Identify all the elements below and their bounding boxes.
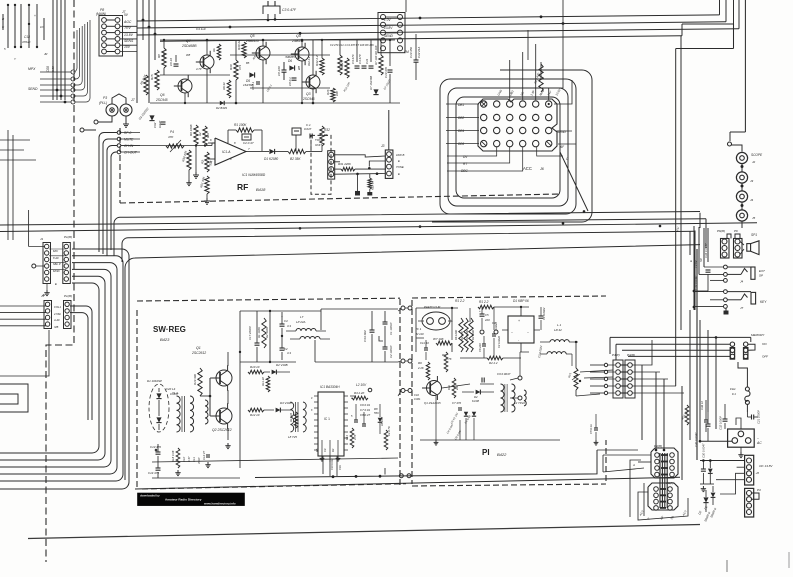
svg-text:Q5: Q5 — [250, 34, 255, 38]
svg-text:D3 V19B: D3 V19B — [280, 401, 292, 405]
wire bundle sweep 4 — [0, 269, 111, 467]
svg-text:D1 K2080: D1 K2080 — [264, 157, 278, 161]
svg-text:R8.33: R8.33 — [222, 82, 226, 90]
svg-text:2SC2612: 2SC2612 — [191, 351, 206, 355]
capacitor C8 0.1A right — [589, 414, 598, 445]
svg-text:470P: 470P — [197, 457, 201, 464]
label PI 2.2 top — [455, 299, 529, 303]
svg-text:RV1: RV1 — [567, 372, 572, 379]
wire bundle sweep 5 — [0, 276, 105, 460]
wire J3 up — [388, 110, 390, 150]
svg-text:R2 102K: R2 102K — [265, 327, 269, 338]
svg-text:/SB355: /SB355 — [284, 55, 295, 59]
label ACC right pins — [556, 130, 576, 161]
svg-text:C36 10: C36 10 — [700, 401, 704, 410]
resistor B2 35K — [288, 149, 322, 161]
capacitor C2 3.3 lower — [280, 335, 292, 360]
svg-text:D2 V19B: D2 V19B — [276, 363, 288, 367]
svg-text:+: + — [518, 319, 520, 323]
svg-text:AF: AF — [559, 145, 565, 149]
wire mid bus 3 — [0, 223, 757, 232]
wire corner rects left — [0, 330, 49, 412]
svg-text:C4 47P: C4 47P — [358, 54, 362, 64]
wire speaker feeders — [689, 226, 708, 310]
svg-text:C3 0.602: C3 0.602 — [363, 330, 367, 342]
capacitor C1 C2 1000P — [379, 311, 393, 362]
junction dots mid bus — [299, 210, 662, 230]
capacitor C33 — [694, 270, 711, 291]
transistor Q4 2SB511 — [291, 34, 309, 65]
bridge rectifier D1 KBP06 — [502, 306, 540, 352]
connector J1 P1(M) upper — [40, 235, 72, 286]
svg-text:5: 5 — [4, 47, 6, 51]
svg-text:R15: R15 — [150, 74, 154, 80]
jack J4 — [736, 191, 753, 210]
svg-text:C3 0.47F: C3 0.47F — [282, 8, 297, 12]
svg-text:SEND: SEND — [384, 34, 394, 38]
svg-text:R8: R8 — [157, 54, 161, 58]
resistor R11 22 — [261, 376, 270, 392]
svg-text:MPX: MPX — [28, 67, 36, 71]
svg-text:W8: W8 — [297, 65, 301, 70]
diode D1 K2080 — [262, 149, 288, 161]
coil small swreg — [205, 400, 208, 424]
transistor Q1 2SA1015 — [414, 376, 442, 405]
svg-text:R1 100K: R1 100K — [234, 123, 247, 127]
svg-text:4.7K: 4.7K — [446, 357, 452, 361]
svg-text:C12 47: C12 47 — [202, 451, 206, 460]
capacitor C8 220u — [277, 62, 287, 80]
svg-text:R2: R2 — [198, 132, 202, 136]
jack J5 — [736, 210, 755, 228]
wire bus top 13.8V — [137, 0, 720, 21]
svg-text:RF: RF — [237, 182, 248, 192]
resistor bank pi — [454, 318, 475, 352]
svg-text:R1 2.2: R1 2.2 — [479, 300, 489, 304]
wire bundle sweep 2 — [0, 256, 123, 481]
capacitor C17 2200P — [248, 311, 260, 362]
svg-text:M 110: M 110 — [416, 332, 424, 336]
connector J7 coax — [120, 98, 135, 116]
connector P1(M) lower — [41, 294, 72, 329]
wire top feeders — [137, 0, 156, 103]
wire bundle sweep 1 — [0, 249, 129, 489]
resistor W8 resistors right — [338, 55, 349, 78]
svg-text:KEY: KEY — [760, 300, 767, 304]
svg-text:R4 120K: R4 120K — [471, 330, 475, 340]
svg-text:R14: R14 — [345, 435, 349, 440]
svg-text:Q2 2SC2612: Q2 2SC2612 — [212, 428, 232, 432]
wire nested route C — [440, 79, 576, 214]
diodes D3 D4 — [449, 411, 476, 424]
svg-text:J3: J3 — [381, 144, 385, 148]
block SW-REG right dashed border — [399, 299, 401, 487]
svg-text:J1: J1 — [41, 294, 44, 298]
capacitor C11 / C4 47P — [365, 59, 374, 69]
resistor extra amp 2 — [222, 80, 231, 98]
svg-text:Amateur Radio Directory: Amateur Radio Directory — [165, 497, 202, 501]
diode D6 1SB355 — [284, 55, 295, 71]
svg-text:R11 22: R11 22 — [261, 377, 265, 386]
wire bottom box — [630, 460, 688, 520]
svg-text:473: 473 — [238, 65, 242, 70]
svg-text:LP 24A: LP 24A — [296, 320, 305, 324]
label L2 10V — [350, 383, 372, 396]
capacitor C12 47 — [202, 451, 210, 460]
svg-text:DV: DV — [463, 155, 468, 159]
svg-text:R5: R5 — [315, 448, 319, 452]
resistor R6 2.2K — [417, 361, 430, 380]
resistor R13 470 — [533, 64, 543, 92]
photo coupler IC1 — [416, 305, 450, 336]
svg-text:UNIT: UNIT — [315, 143, 322, 147]
inductor L2 TP22 — [501, 376, 526, 412]
svg-text:+: + — [479, 309, 481, 313]
svg-text:J3: J3 — [750, 179, 754, 183]
ground op-amp — [193, 146, 210, 205]
capacitor C7 0.0022 — [539, 307, 547, 330]
label C7 470 — [452, 401, 462, 410]
capacitor C08 — [46, 66, 55, 72]
terminal circles bottom boundary — [399, 474, 411, 478]
svg-text:C8 0.1A: C8 0.1A — [589, 424, 593, 434]
connector P8 (MAIN) — [96, 8, 134, 56]
banner hamdirectory — [138, 493, 245, 506]
connector DC 13.8V — [700, 455, 773, 494]
svg-text:C2 1000P: C2 1000P — [389, 345, 393, 358]
wire ACC top feeders — [510, 0, 572, 104]
svg-text:R32: R32 — [324, 128, 330, 132]
resistor R1 102K — [257, 318, 269, 348]
svg-text:R1 102K: R1 102K — [257, 327, 261, 338]
resistor RV1 — [567, 368, 580, 390]
svg-text:R9 2.2K: R9 2.2K — [139, 73, 148, 85]
svg-text:R7 10K R8 10K: R7 10K R8 10K — [374, 45, 378, 65]
svg-text:C16: C16 — [339, 465, 342, 470]
wire A feed P2 — [632, 462, 651, 467]
svg-text:D7 1S233: D7 1S233 — [382, 78, 392, 90]
label C6 C7 C8 values — [360, 403, 380, 417]
svg-text:10W B: 10W B — [396, 153, 405, 157]
svg-text:C8 0.47: C8 0.47 — [360, 413, 371, 417]
svg-text:W8: W8 — [186, 53, 191, 57]
svg-text:MIC: MIC — [53, 249, 59, 253]
diode D7 1S1588 right — [369, 76, 379, 95]
svg-text:2SA1115: 2SA1115 — [245, 39, 259, 43]
svg-text:C18: C18 — [24, 35, 30, 39]
connector P4(P) P4(M) — [604, 353, 635, 398]
diode D5 right — [378, 404, 384, 434]
coil output small — [524, 390, 526, 406]
svg-text:T1.3: T1.3 — [172, 391, 178, 395]
wire bus top SEND — [137, 0, 739, 35]
svg-text:13.8V: 13.8V — [124, 33, 134, 37]
svg-text:RF-0: RF-0 — [124, 131, 131, 135]
svg-text:C20 0.0047: C20 0.0047 — [694, 432, 698, 447]
wire amp verticals — [164, 39, 390, 105]
svg-text:C32 1000P: C32 1000P — [719, 416, 723, 430]
svg-text:C20: C20 — [166, 387, 172, 391]
op-amp IC1-A — [208, 138, 262, 165]
svg-text:MOB: MOB — [538, 89, 545, 97]
svg-text:C: C — [2, 25, 5, 29]
resistor R32 2.2 — [315, 55, 324, 75]
svg-text:P1(M): P1(M) — [64, 294, 72, 298]
wire bottom feeder to P2 — [597, 450, 651, 472]
wire left edge feeders lower — [0, 306, 46, 326]
svg-text:TONE: TONE — [396, 165, 404, 169]
resistor R10 220 — [447, 378, 459, 398]
connector P6(M) P6 speaker — [717, 229, 757, 258]
svg-text:1.8F: 1.8F — [529, 89, 535, 96]
capacitor C14 470 — [148, 462, 161, 478]
svg-text:C3 470: C3 470 — [351, 54, 355, 64]
svg-text:8: 8 — [311, 409, 313, 412]
svg-text:D2 1S2222: D2 1S2222 — [138, 106, 150, 120]
capacitor C4.10 — [196, 27, 206, 31]
label C2 0.0022 — [537, 345, 543, 358]
svg-text:R31 220K: R31 220K — [338, 162, 352, 166]
svg-text:0.047: 0.047 — [304, 127, 312, 131]
svg-text:C8 0.1: C8 0.1 — [288, 77, 292, 86]
block SW-REG dashed border — [137, 298, 406, 489]
terminal circles swreg edge — [398, 306, 412, 396]
capacitor extra amp — [251, 81, 260, 90]
svg-text:IC1 BA3304H: IC1 BA3304H — [320, 385, 340, 389]
svg-text:R6: R6 — [212, 48, 216, 52]
svg-text:R16: R16 — [326, 89, 330, 95]
wire tone ground 1 — [355, 174, 360, 195]
svg-text:C9 0.0047: C9 0.0047 — [497, 372, 511, 376]
svg-text:P3: P3 — [103, 96, 107, 100]
diode extra amp — [216, 101, 227, 110]
svg-text:A AF: A AF — [53, 318, 60, 322]
resistor R8 10K — [157, 48, 166, 68]
svg-text:7: 7 — [248, 147, 250, 151]
wire bus top aux — [160, 0, 734, 41]
wire swreg bottom rail — [152, 440, 398, 478]
resistor R1 100K feedback — [228, 123, 301, 135]
svg-text:CH-OUT: CH-OUT — [124, 151, 138, 155]
wire ACC right link — [560, 152, 588, 211]
transistor Q2 swreg — [211, 403, 232, 432]
wire bundle sweep 3 — [0, 263, 117, 474]
svg-text:JR: JR — [44, 52, 47, 56]
svg-text:C7 470: C7 470 — [452, 401, 461, 405]
svg-text:C4 0.0022: C4 0.0022 — [497, 335, 501, 348]
svg-text:J5: J5 — [752, 216, 756, 220]
capacitor C30 0.0047 — [702, 412, 711, 458]
connector J3 right of tone — [381, 144, 405, 178]
svg-text:C6 220: C6 220 — [478, 343, 482, 352]
resistor R9 2.2K — [139, 73, 148, 95]
label extra amp texts — [186, 43, 392, 93]
wire pi bottom rails — [420, 352, 560, 445]
transistor Q6 2SC945 — [155, 75, 192, 102]
wire pi right links — [575, 341, 613, 396]
svg-text:C11 10: C11 10 — [420, 341, 429, 345]
svg-text:TONE: TONE — [315, 138, 324, 142]
svg-text:B2 35K: B2 35K — [290, 157, 301, 161]
fuse FH1 F1 — [730, 362, 750, 412]
resistor R32 8T — [320, 126, 330, 152]
label RF B418 — [237, 182, 266, 192]
resistor R15 10K — [150, 70, 159, 90]
resistor R3 2.2K — [352, 391, 368, 400]
inductor L1 LR42 — [540, 323, 578, 366]
block PI dashed border — [412, 296, 606, 486]
svg-text:R2 2.2: R2 2.2 — [489, 361, 498, 365]
switch MEMORY — [730, 333, 768, 359]
svg-text:SCOPE: SCOPE — [751, 153, 763, 157]
label PI B422 — [482, 448, 507, 457]
svg-text:0.0022: 0.0022 — [494, 322, 498, 330]
svg-text:ON: ON — [762, 342, 767, 346]
svg-text:R9 100K: R9 100K — [189, 123, 193, 136]
connector ACC J6 — [478, 99, 557, 171]
svg-text:R2 68K: R2 68K — [460, 331, 464, 340]
wire bus top 10V — [137, 0, 726, 28]
svg-text:DB4: DB4 — [458, 129, 464, 133]
svg-text:R12 2.2: R12 2.2 — [307, 56, 311, 66]
svg-text:4.7K: 4.7K — [353, 434, 357, 440]
resistor R1 2.2 sym — [478, 300, 529, 309]
capacitor C2 0.47 — [242, 134, 254, 145]
inductor L7 LP24A — [286, 315, 330, 339]
svg-text:J4: J4 — [750, 198, 754, 202]
svg-text:SP1: SP1 — [751, 233, 757, 237]
wire tone rows — [334, 155, 385, 175]
capacitor C11 10 — [420, 340, 429, 360]
label ACC top pins — [496, 87, 562, 96]
svg-text:D2: D2 — [697, 510, 702, 515]
svg-text:C13 470: C13 470 — [384, 67, 388, 78]
wire left verticals mid — [0, 130, 36, 240]
wire bundle MPX/SEND lines — [28, 20, 90, 104]
svg-text:P4(P): P4(P) — [612, 353, 620, 357]
svg-text:10P: 10P — [335, 91, 339, 96]
svg-text:OFF: OFF — [762, 355, 768, 359]
connector P3(P) — [648, 481, 678, 510]
wire bundle top-left verticals — [53, 0, 65, 100]
wire mid bus 4 — [122, 231, 695, 262]
svg-text:SP: SP — [759, 274, 763, 278]
wire pi rails — [416, 307, 470, 352]
svg-text:Y: Y — [14, 57, 17, 61]
svg-text:3.3: 3.3 — [287, 351, 291, 355]
svg-text:C13 470: C13 470 — [150, 445, 161, 449]
svg-text:Q3: Q3 — [306, 92, 311, 96]
svg-text:C11: C11 — [365, 59, 369, 64]
wire swreg q1q2 — [200, 352, 240, 468]
transistor Q7 2SD468B — [181, 39, 214, 73]
svg-text:ND: ND — [519, 91, 525, 97]
svg-text:R16 10P: R16 10P — [342, 81, 351, 92]
svg-text:IC1-A: IC1-A — [222, 150, 231, 154]
resistor R9 100K — [189, 123, 198, 145]
svg-text:C: C — [566, 157, 569, 161]
wire right column verticals — [699, 320, 718, 443]
svg-text:R32 2.2: R32 2.2 — [315, 55, 319, 66]
svg-text:P3: P3 — [757, 488, 761, 492]
svg-text:J7: J7 — [740, 306, 744, 310]
svg-text:E: E — [55, 282, 57, 286]
wire sweep lower conn — [70, 306, 92, 420]
svg-text:9: 9 — [311, 397, 313, 400]
label SW-REG — [153, 325, 186, 342]
wire swreg top rails — [239, 310, 321, 363]
label Fe 4.7K — [384, 426, 391, 450]
svg-text:C34 0.0047: C34 0.0047 — [704, 243, 708, 258]
capacitor C4 3.3 — [280, 312, 292, 336]
wire right long vertical pair — [676, 36, 681, 386]
svg-text:DB6: DB6 — [458, 142, 464, 146]
svg-text:0.001: 0.001 — [414, 397, 421, 401]
svg-text:AC: AC — [756, 441, 762, 445]
svg-text:MEMORY: MEMORY — [751, 333, 765, 337]
ground speaker bottom — [724, 308, 728, 314]
capacitor swreg right bank — [354, 404, 366, 426]
svg-text:~: ~ — [511, 331, 513, 335]
svg-text:470uF: 470uF — [22, 40, 31, 44]
resistor R13 22 — [289, 412, 298, 428]
svg-text:C1 1000P: C1 1000P — [389, 322, 393, 335]
svg-text:R12 10: R12 10 — [250, 413, 260, 417]
connector P7 bottom right — [745, 488, 761, 517]
label C4 C5 0.047 — [445, 423, 462, 441]
resistor R9 4.7K — [442, 352, 452, 372]
svg-text:14V: 14V — [546, 89, 553, 96]
svg-text:6-F08: 6-F08 — [472, 399, 480, 403]
wire nested route D — [432, 70, 592, 222]
svg-text:CH-IN: CH-IN — [124, 144, 134, 148]
resistor R10 10 — [248, 365, 264, 374]
svg-text:IC1 NJM4558D: IC1 NJM4558D — [242, 173, 266, 177]
svg-text:W7 10K: W7 10K — [433, 337, 445, 341]
svg-text:C9: C9 — [323, 448, 327, 452]
svg-text:COL1: COL1 — [54, 305, 62, 309]
svg-text:Q4: Q4 — [296, 34, 301, 38]
jack J3 — [736, 172, 753, 191]
svg-text:C2 0.47: C2 0.47 — [243, 141, 254, 145]
svg-text:R38 47K: R38 47K — [181, 149, 188, 162]
svg-text:8 AF: 8 AF — [53, 256, 59, 260]
capacitor C20 0.0047 — [694, 432, 698, 447]
resistor K22 0K — [368, 174, 375, 195]
wire nested route A — [456, 97, 560, 198]
svg-text:2.2K: 2.2K — [417, 366, 424, 370]
block power boundary box — [125, 245, 700, 489]
capacitor C1 0.047 — [304, 123, 312, 151]
bridge D1 dashed ellipse — [147, 379, 179, 432]
capacitor C3 0.47F — [263, 1, 297, 20]
resistor R30 22 — [237, 40, 246, 58]
svg-text:DB1: DB1 — [458, 103, 464, 107]
svg-text:C17 2200P: C17 2200P — [248, 326, 252, 340]
svg-text:+Θ: +Θ — [756, 471, 760, 475]
resistor R7 10K top — [374, 45, 383, 75]
capacitor C13 450 right of amp — [409, 34, 421, 80]
wire feedback drop — [228, 130, 296, 151]
svg-text:IVB: IVB — [54, 325, 59, 329]
svg-text:E: E — [689, 260, 693, 262]
wire ACC stub lines — [447, 147, 563, 171]
diode D5 1S1588 — [243, 72, 255, 87]
jack KEY J7 — [694, 290, 767, 310]
capacitor C6.10 — [169, 58, 179, 67]
svg-text:J4: J4 — [740, 280, 744, 284]
svg-text:B423: B423 — [160, 337, 170, 342]
